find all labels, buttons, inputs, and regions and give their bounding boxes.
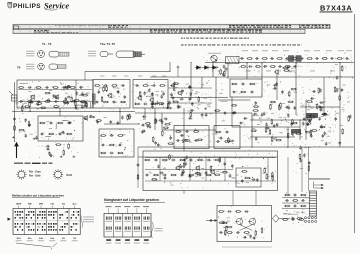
demodulator row lower labels	[246, 70, 335, 73]
svg-text:S1b: S1b	[39, 238, 44, 240]
transistor T6 side view	[49, 64, 66, 69]
wire	[251, 135, 253, 147]
IF transformer labels above boxes	[100, 75, 167, 78]
switch bottom components	[282, 218, 304, 221]
speaker labels	[288, 213, 298, 216]
output stage box	[217, 206, 272, 242]
IF stage 1 vertical parts	[101, 86, 119, 102]
FM tuner upper component row	[18, 86, 83, 89]
transistor T6 pinout legend	[26, 63, 35, 66]
FM tuner extra labels	[24, 86, 90, 104]
wire	[162, 129, 216, 131]
output bias components	[218, 210, 249, 213]
wire	[215, 77, 217, 135]
ferrite antenna	[9, 91, 17, 101]
AF pre-stage box	[230, 79, 262, 97]
interstage upper components	[215, 131, 229, 134]
svg-text:Wellenschalter auf Lötpunkte g: Wellenschalter auf Lötpunkte gesehen	[12, 193, 64, 197]
supply riser at 178	[177, 67, 179, 77]
svg-text:B7X43A: B7X43A	[320, 3, 352, 12]
detector transformer S9	[211, 55, 217, 61]
AF amplifier middle row	[145, 174, 212, 177]
switch wiring dense cluster	[302, 112, 328, 135]
FM tuner internal divider	[75, 80, 77, 108]
demodulator row value labels	[242, 49, 352, 52]
tone table right note	[155, 227, 163, 230]
interstage box	[214, 126, 240, 149]
wire	[135, 112, 252, 114]
band switch section labels	[16, 238, 78, 241]
right edge decoupling chain	[334, 102, 351, 146]
IF stage 2 upper components	[135, 84, 166, 87]
tone control components	[241, 171, 259, 184]
tone switch contact glyphs	[106, 217, 150, 232]
diode T1a outline drawing	[100, 52, 113, 57]
IF amplifier lower wire	[168, 102, 212, 104]
dark blob component 1	[306, 113, 318, 118]
wire	[276, 74, 278, 100]
table pointer lines	[16, 243, 57, 249]
AM detector cluster	[141, 115, 169, 128]
svg-text:T6: T6	[17, 65, 21, 69]
FM tuner value labels	[20, 83, 71, 92]
detector diode D3	[211, 66, 219, 70]
dial scale dark segment middle	[229, 25, 231, 26]
wire	[190, 63, 192, 101]
wire	[295, 63, 297, 115]
wire	[201, 77, 203, 88]
wire	[250, 119, 312, 121]
loudspeaker connection diamond	[273, 215, 279, 223]
wire	[59, 108, 61, 116]
loudspeaker wire	[279, 218, 290, 220]
IF transformer box S7	[93, 80, 130, 109]
driver transformer lower components	[176, 139, 198, 142]
AM oscillator box	[38, 116, 83, 141]
IF stage 2 vertical parts	[139, 88, 153, 97]
diode T4 T5 outline drawing	[116, 51, 145, 58]
IF stage 2 lower components	[134, 103, 164, 106]
wire	[218, 99, 250, 101]
input arrow	[215, 219, 218, 221]
transistor T8	[195, 165, 200, 171]
transistor T2b	[83, 115, 88, 121]
push-pull phase splitter cluster	[251, 122, 294, 142]
interstage wiring cluster	[141, 118, 172, 134]
AF box left feed vertical	[137, 147, 139, 188]
dial lower scale dark segment left	[34, 30, 36, 31]
output emitter components	[219, 231, 250, 234]
output left column parts	[223, 217, 230, 236]
AF box vertical 3	[205, 158, 207, 182]
wire	[169, 62, 171, 71]
FM tuner lower wire	[18, 101, 92, 103]
transistor T1	[30, 94, 35, 100]
left border ground	[12, 136, 15, 138]
transistor T4	[137, 95, 142, 101]
demodulator secondary row	[240, 65, 297, 68]
wire AF to output 2	[255, 191, 257, 206]
AF amplifier upper row	[144, 159, 221, 162]
left border resistor	[14, 125, 16, 131]
AM filter extra parts	[21, 101, 87, 112]
speaker resistor	[296, 218, 302, 220]
dial scale caption line 2	[181, 44, 184, 45]
output feed chain components	[299, 146, 311, 172]
wire from AF box down	[183, 191, 185, 195]
IF stage 2 labels	[149, 91, 165, 99]
wire	[305, 100, 307, 140]
ratio detector labels	[111, 134, 126, 150]
AF pre-stage lower components	[232, 91, 254, 94]
FM tuner upper wire	[18, 89, 92, 91]
ratio detector upper components	[100, 134, 123, 137]
IF stage 1 upper components	[94, 84, 125, 87]
wire	[339, 63, 341, 148]
left border wire	[14, 82, 16, 142]
IF amplifier extra labels	[175, 84, 211, 107]
FM tuner extra parts	[30, 96, 76, 107]
AF amplifier box	[143, 151, 278, 191]
switch detail arrow 1	[314, 184, 324, 186]
AM oscillator lower components	[40, 133, 72, 136]
wire	[231, 97, 233, 127]
wire	[12, 111, 135, 113]
table left arrow	[8, 218, 11, 221]
band switch column headers	[16, 203, 77, 209]
AM input filter components	[16, 100, 91, 110]
detector transformer labels	[208, 52, 221, 55]
transistor T6 bottom view	[38, 63, 45, 70]
svg-text:Ro/S: Ro/S	[67, 174, 73, 177]
volume stage cluster	[214, 101, 247, 124]
adjustment knob Rot-Grau Rot-Gelb	[16, 169, 26, 179]
transistor T9	[210, 169, 215, 175]
wire	[300, 106, 340, 108]
dial scale caption line 1	[181, 38, 183, 39]
Tastenaggregat label	[309, 178, 330, 181]
switch detail leader line	[313, 182, 315, 189]
crossover wire 2	[240, 225, 253, 231]
detector diode D2	[203, 66, 211, 70]
AF amplifier dense parts	[157, 154, 233, 180]
FM tuning capacitor dark bar	[92, 94, 96, 105]
AF box vertical 2	[189, 158, 191, 182]
tone network extra labels	[256, 108, 332, 144]
AF box vertical 4	[224, 158, 226, 182]
background scan texture	[14, 52, 353, 239]
wire	[246, 63, 248, 79]
switch row 2 components	[285, 199, 305, 202]
bus drop to FM box	[84, 71, 86, 80]
transistor T1-T3 side view	[49, 51, 69, 57]
svg-text:TA: TA	[62, 203, 65, 206]
svg-text:Service: Service	[44, 2, 69, 11]
wire	[212, 62, 214, 77]
output transistor T10	[235, 217, 243, 225]
transistor T1-T3 pinout legend	[26, 50, 35, 53]
wire	[261, 63, 263, 79]
ratio detector lower components	[100, 152, 123, 155]
speaker terminal marks	[283, 213, 291, 216]
wire	[161, 113, 163, 130]
ratio detector diode row	[101, 144, 122, 147]
diode T1a pinout legend	[88, 50, 96, 53]
wire	[250, 136, 295, 138]
wire	[85, 70, 170, 72]
switch connector circles	[304, 217, 316, 223]
svg-text:Rot - Gelb: Rot - Gelb	[29, 175, 41, 178]
IF amplifier upper wire	[168, 87, 212, 89]
driver bias cluster	[219, 221, 233, 228]
second IF amplifier cluster	[170, 81, 207, 109]
tone filter cluster	[282, 60, 294, 73]
IF output coupling cluster	[150, 101, 172, 110]
driver box extra parts	[180, 134, 203, 141]
demodulator main component row	[240, 57, 349, 60]
AM detector coil box	[226, 57, 240, 64]
AF box wire 1	[145, 157, 276, 159]
band switch contact dots	[15, 211, 80, 231]
switch contact bank	[310, 191, 317, 216]
IF stage 2 extra labels	[139, 85, 159, 97]
antenna circuit components	[19, 118, 38, 140]
wire	[154, 108, 156, 130]
AGC dark component group	[288, 55, 294, 62]
dial scale dark segment left	[108, 25, 110, 26]
adjustment knob Ro/S	[53, 169, 63, 179]
tone switch bottom labels	[106, 239, 150, 243]
tuning dial scale upper strip	[13, 24, 330, 29]
dial scale medium text segment	[55, 24, 57, 27]
IF transformer box S8	[133, 80, 168, 109]
wire	[205, 62, 354, 64]
switch feed vertical 2	[308, 147, 310, 191]
wire AF to output 1	[232, 191, 234, 206]
AF left feed capacitor	[137, 163, 140, 167]
output stage part numbers	[222, 246, 272, 249]
switch wiring horizontals	[282, 197, 310, 199]
output transistor T11	[248, 217, 256, 225]
AF amplifier extra labels	[154, 157, 239, 185]
switch row 1 components	[284, 194, 306, 197]
interstage box extra parts	[219, 137, 234, 143]
left border capacitor	[13, 117, 16, 121]
dial lower scale dense markings	[150, 30, 152, 31]
switch detail arrow 2	[314, 187, 324, 189]
ratio detector box	[99, 129, 134, 157]
svg-text:Klangtaster auf Lötpunkte gese: Klangtaster auf Lötpunkte gesehen	[104, 198, 159, 202]
crossover wire 1	[240, 225, 253, 231]
AF coupling network cluster	[253, 101, 294, 119]
AM output network	[46, 143, 76, 157]
interstage lower components	[216, 140, 230, 143]
FM tuner box	[17, 80, 93, 108]
wire	[104, 123, 140, 125]
output network cluster	[243, 227, 263, 240]
AM oscillator labels	[45, 120, 72, 136]
schematic right border wire	[354, 14, 356, 233]
AF left feed resistor	[137, 174, 139, 180]
transistor T1-T3 bottom view	[38, 51, 45, 58]
transistor T5b	[177, 90, 182, 96]
transistor T2	[54, 94, 59, 100]
tuning dial scale lower strip	[13, 29, 305, 33]
AF box wire 2	[145, 169, 233, 171]
AF amplifier inner box	[236, 168, 261, 187]
AF box wire 3	[145, 180, 276, 182]
input coupling capacitor	[209, 219, 213, 222]
AF input network cluster	[152, 130, 173, 147]
AF amplifier extra parts	[151, 158, 201, 180]
AM oscillator upper components	[39, 122, 71, 125]
wire	[138, 156, 277, 158]
alignment arrow symbol	[14, 142, 18, 158]
transistor T7	[175, 165, 180, 171]
transistor T3	[107, 93, 112, 99]
dial lower strip extra dark segment	[47, 32, 49, 33]
dial pointer box	[14, 26, 19, 29]
driver transformer upper components	[175, 130, 199, 133]
FM oscillator section parts	[64, 85, 78, 105]
AF driver coupling cluster	[267, 82, 297, 97]
wire	[144, 108, 146, 120]
AF pre-stage upper components	[231, 83, 255, 86]
FM tuner lower component row	[19, 100, 86, 103]
output input wire	[206, 220, 217, 222]
alignment instruction text	[14, 163, 53, 164]
dark blob component 2	[291, 129, 301, 134]
switch labels	[284, 212, 305, 214]
demodulator extra labels	[210, 56, 338, 66]
AGC feedback cluster	[187, 109, 212, 120]
AF output coupling	[264, 168, 274, 181]
driver transformer box	[174, 126, 209, 149]
svg-text:UKW: UKW	[16, 204, 22, 206]
tone switch column headers	[106, 206, 150, 213]
speaker coupling capacitor	[291, 217, 295, 220]
FM tuner mid components	[45, 92, 89, 99]
wire	[227, 63, 229, 79]
wire	[287, 127, 289, 147]
dial scale dark segment right	[299, 25, 300, 26]
mixer coupling components	[80, 101, 95, 120]
tone switch contact table	[104, 214, 151, 238]
IF stage 1 labels	[98, 90, 127, 100]
AF box vertical 5	[267, 158, 269, 182]
band switch contact table	[13, 209, 80, 235]
table right side note	[83, 216, 94, 219]
svg-text:PHILIPS: PHILIPS	[13, 3, 41, 10]
IF stage 1 lower components	[95, 101, 126, 104]
wire	[251, 113, 253, 135]
svg-text:S1d: S1d	[17, 238, 22, 240]
wire	[29, 108, 31, 112]
AM IF coupling components	[96, 114, 132, 126]
switch feed vertical 3	[287, 157, 289, 195]
dense switch wiring cluster	[302, 112, 328, 135]
transistor T6 circuit symbol	[274, 69, 279, 75]
crystal marker	[177, 66, 180, 69]
driver transformer labels	[178, 131, 192, 143]
AF amplifier labels	[149, 157, 264, 183]
svg-text:T1 - T3: T1 - T3	[42, 42, 52, 46]
tone table right bracket	[151, 222, 153, 238]
wire	[170, 97, 228, 99]
wire	[232, 126, 300, 128]
wire	[323, 77, 325, 115]
AF box vertical 1	[159, 158, 161, 182]
IF stage 1 extra labels	[99, 87, 120, 102]
transistor T5	[149, 97, 154, 103]
svg-text:T1a, T4, T5: T1a, T4, T5	[100, 42, 115, 46]
svg-text:Rot - Grau: Rot - Grau	[29, 171, 41, 174]
wire	[150, 76, 354, 78]
tone network dense cluster	[251, 101, 331, 145]
feedback network cluster	[301, 87, 326, 109]
switch row 3 components	[284, 205, 306, 208]
wire	[119, 108, 121, 124]
wire	[183, 108, 185, 151]
switch feed vertical 1	[301, 147, 303, 192]
wire	[299, 120, 301, 140]
volume control chain	[217, 65, 227, 103]
detector diode D1	[195, 66, 203, 70]
Philips shield logo	[8, 2, 12, 8]
right edge supply chain	[334, 65, 346, 101]
wire	[138, 146, 354, 148]
